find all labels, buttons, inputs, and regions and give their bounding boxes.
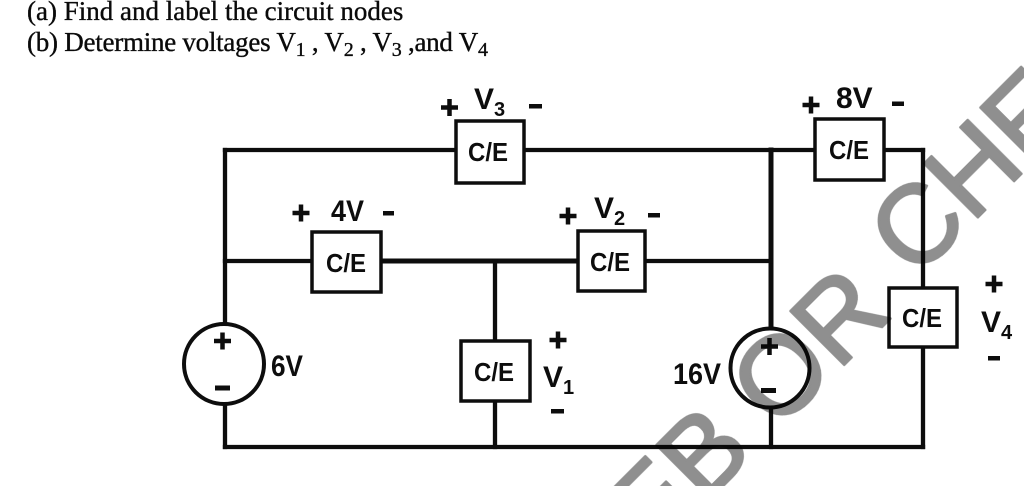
wire left vertical lower: [223, 406, 227, 447]
label V2 with polarity: [560, 192, 661, 230]
element C/E 4V (box): [312, 232, 381, 292]
svg-text:6V: 6V: [271, 350, 303, 383]
wire middle horizontal left segment: [225, 259, 312, 263]
wire middle horizontal center segment: [381, 259, 578, 264]
wire top right segment: [884, 148, 923, 152]
wire right vertical upper: [921, 150, 925, 290]
element C/E V1 (box): [461, 341, 530, 401]
wire right vertical lower: [921, 345, 925, 447]
svg-text:(a) Find and label the circuit: (a) Find and label the circuit nodes: [27, 0, 403, 26]
wire top left segment: [225, 148, 456, 152]
wire left vertical upper: [223, 150, 227, 323]
element C/E 8V (box): [815, 119, 884, 180]
element C/E V4 (box): [889, 288, 957, 347]
wire center vertical upper (node to 16V): [769, 150, 774, 328]
source V 16V: [731, 329, 810, 408]
svg-text:C/E: C/E: [326, 248, 366, 278]
label V1 with polarity: [543, 332, 574, 414]
label V4 with polarity: [981, 276, 1013, 361]
svg-text:C/E: C/E: [474, 357, 514, 387]
element C/E V3 (box): [456, 121, 524, 183]
label 4V with polarity: [293, 195, 395, 228]
svg-text:8V: 8V: [836, 82, 873, 115]
wire center vertical lower (16V to bottom): [769, 409, 773, 447]
wire V1 branch vertical upper: [493, 261, 497, 343]
svg-text:C/E: C/E: [829, 135, 869, 165]
label V3 with polarity: [441, 83, 542, 121]
wire bottom: [225, 445, 923, 449]
watermark EB OR CHE: [582, 46, 1024, 486]
svg-text:C/E: C/E: [590, 247, 630, 277]
svg-text:4V: 4V: [331, 195, 364, 228]
wire middle horizontal right segment: [645, 259, 771, 263]
source V 6V: [184, 324, 264, 404]
svg-text:C/E: C/E: [468, 137, 508, 167]
wire top middle segment: [524, 148, 815, 152]
svg-text:C/E: C/E: [902, 303, 942, 333]
label 8V with polarity: [803, 82, 905, 115]
wire V1 branch vertical lower: [493, 399, 497, 447]
svg-text:(b) Determine voltages V1 , V2: (b) Determine voltages V1 , V2 , V3 ,and…: [27, 27, 488, 61]
element C/E V2 (box): [578, 231, 645, 291]
